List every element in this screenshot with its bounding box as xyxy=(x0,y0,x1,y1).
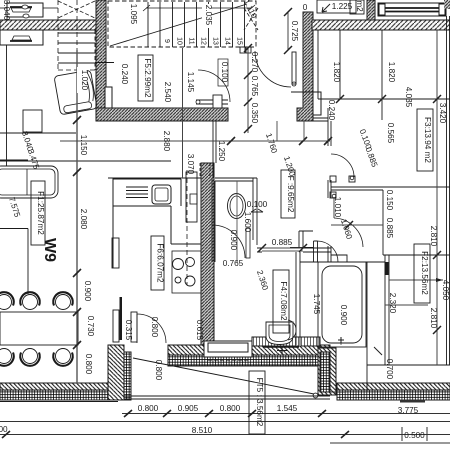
svg-text:0.900: 0.900 xyxy=(339,305,348,326)
corridor east wall with door gaps xyxy=(328,108,331,262)
wall top-right horizontal xyxy=(312,20,450,30)
corridor ne lines xyxy=(313,118,328,121)
svg-text:0.350: 0.350 xyxy=(250,103,259,124)
wall step vertical left of terrace xyxy=(108,345,124,400)
kitchen fridge column xyxy=(186,172,197,222)
svg-text:2.035: 2.035 xyxy=(204,5,213,26)
kitchen dashed appliance line xyxy=(186,170,188,285)
svg-text:1.145: 1.145 xyxy=(186,72,195,93)
staircase up arrow diagonal xyxy=(110,4,247,46)
bathtub inner xyxy=(322,266,362,343)
svg-text:0.700: 0.700 xyxy=(385,359,394,380)
F5 door arc xyxy=(198,70,230,102)
kitchen top counter xyxy=(113,179,201,268)
dining table xyxy=(0,312,78,345)
svg-text:8.510: 8.510 xyxy=(192,426,213,435)
left vertical line x7 xyxy=(6,0,8,20)
svg-text:2.080: 2.080 xyxy=(79,209,88,230)
bath west stub door leaf xyxy=(290,241,318,262)
WC 0.100 arrows xyxy=(251,209,263,212)
bath tub top line xyxy=(300,261,367,263)
right outer wall double xyxy=(447,16,450,365)
niche lintel line xyxy=(95,62,114,64)
svg-text:1.545: 1.545 xyxy=(277,404,298,413)
svg-text:11: 11 xyxy=(188,37,195,44)
corridor door arc xyxy=(255,51,291,87)
ticks chain x263 xyxy=(284,8,292,54)
F2 window black bar xyxy=(385,262,389,275)
svg-text:0.800: 0.800 xyxy=(154,360,163,381)
svg-text:0.885: 0.885 xyxy=(272,238,293,247)
svg-text:4.035: 4.035 xyxy=(404,87,413,108)
F2 niche lines xyxy=(383,190,450,255)
ticks y141 xyxy=(227,137,332,145)
svg-text:0.885: 0.885 xyxy=(385,218,394,239)
svg-text:0.730: 0.730 xyxy=(86,316,95,337)
F2 inner line y305 xyxy=(385,304,428,306)
stair dim line top xyxy=(143,5,255,11)
svg-text:3.040: 3.040 xyxy=(2,0,11,21)
top-left horizontal line y8 xyxy=(0,7,7,9)
F3 horizontal line xyxy=(318,98,450,100)
corridor stub line x277 xyxy=(276,121,278,141)
kitchen vent grill xyxy=(126,187,148,198)
kitchen door arc xyxy=(137,314,166,343)
bathtub outer xyxy=(318,262,366,347)
svg-text:1.020: 1.020 xyxy=(80,70,89,91)
stair bottom dashed cut xyxy=(58,69,95,71)
svg-text:1.600: 1.600 xyxy=(243,212,252,233)
wall joint line xyxy=(291,91,313,93)
kitchen wall stub left xyxy=(112,238,119,268)
svg-text:00: 00 xyxy=(0,425,8,434)
svg-text:0.500: 0.500 xyxy=(404,431,425,440)
WC center dim line xyxy=(236,181,238,262)
svg-text:3.420: 3.420 xyxy=(438,103,447,124)
chain x263 stairs xyxy=(287,12,289,50)
svg-text:1.820: 1.820 xyxy=(387,62,396,83)
F5 door leaf along wall xyxy=(196,100,228,104)
top arrow near 1.225 xyxy=(322,4,330,12)
bath north wall and door sill xyxy=(257,248,331,252)
svg-text:F1:25.87m2: F1:25.87m2 xyxy=(36,191,45,235)
terrace diagonal leader xyxy=(133,358,314,394)
svg-text:1.820: 1.820 xyxy=(332,62,341,83)
F3 F2 divider wall xyxy=(331,187,450,190)
F2 leader y280 xyxy=(389,279,443,281)
bath dim 0.885 line xyxy=(262,247,303,249)
svg-text:0.240: 0.240 xyxy=(120,64,129,85)
wall bottom-mid horizontal hatch xyxy=(168,345,330,356)
wall central kitchen vertical xyxy=(201,163,214,353)
corridor opening jambs xyxy=(240,47,245,53)
window in bottom wall xyxy=(204,341,252,360)
bathtub drain xyxy=(338,337,344,343)
main horizontal dim line y141 xyxy=(60,140,330,142)
chairs row2 xyxy=(0,349,73,366)
dim line y225 F2 xyxy=(331,224,383,226)
wall stairwell vertical xyxy=(96,0,106,120)
checker band bottom-left xyxy=(0,390,118,400)
svg-text:1.745: 1.745 xyxy=(312,294,321,315)
corridor door leaf vertical xyxy=(292,52,296,84)
svg-text:m2: m2 xyxy=(355,0,364,12)
washbasin left oval xyxy=(288,320,296,340)
below-wall cupboard rect xyxy=(0,30,43,45)
bottom dim line 1 xyxy=(122,413,450,415)
left boundary line xyxy=(6,45,8,166)
svg-text:FT5 : 3.56m2: FT5 : 3.56m2 xyxy=(255,378,264,427)
bath east line xyxy=(366,262,368,392)
svg-text:0.565: 0.565 xyxy=(386,123,395,144)
svg-text:0.900: 0.900 xyxy=(229,230,238,251)
left room line y160 xyxy=(0,159,28,161)
top right mini wall vertical xyxy=(367,0,375,20)
tick 0.700 leader xyxy=(374,347,382,355)
chain x437 right xyxy=(436,30,438,365)
svg-text:F2:13.56m2: F2:13.56m2 xyxy=(420,251,429,295)
staircase dashed box xyxy=(108,1,256,47)
svg-text:1.095: 1.095 xyxy=(129,4,138,25)
terrace edge double lines xyxy=(124,396,330,399)
WC room walls xyxy=(212,178,257,262)
svg-text:10: 10 xyxy=(176,37,183,45)
stove outline xyxy=(172,251,201,293)
kitchen door jambs xyxy=(113,310,137,342)
top right window band xyxy=(378,3,446,16)
wall top-left horizontal xyxy=(0,20,96,30)
svg-text:0.150: 0.150 xyxy=(385,190,394,211)
kitchen door black bar xyxy=(120,297,123,340)
wall corridor right vertical L-shape xyxy=(297,12,313,121)
white halo stair dims xyxy=(127,3,136,26)
band tab bottom right xyxy=(400,400,425,403)
checker band bottom-mid xyxy=(168,355,330,366)
terrace right step lines xyxy=(330,391,345,393)
chain x248 xyxy=(247,48,249,133)
0.500 stubs xyxy=(402,427,427,441)
svg-text:0.765: 0.765 xyxy=(223,259,244,268)
svg-text:1.225: 1.225 xyxy=(332,2,353,11)
svg-text:1.010: 1.010 xyxy=(333,197,342,218)
svg-text:12: 12 xyxy=(200,37,207,45)
toilet WC xyxy=(228,194,246,219)
sofa rounded xyxy=(0,166,58,198)
staircase cut cross right xyxy=(244,8,258,30)
svg-text:2.810: 2.810 xyxy=(429,308,438,329)
svg-text:1.250: 1.250 xyxy=(217,141,226,162)
svg-text:0.800: 0.800 xyxy=(138,404,159,413)
checker col step xyxy=(124,352,131,400)
left room line y133 xyxy=(0,132,76,134)
svg-text:0: 0 xyxy=(303,3,308,12)
svg-text:15: 15 xyxy=(236,37,243,45)
svg-text:0.765: 0.765 xyxy=(250,76,259,97)
lower stair flight left dashed cross xyxy=(58,1,95,18)
F2 west wall double xyxy=(385,255,389,365)
WC door arc xyxy=(212,225,245,258)
bath inner wall verticals xyxy=(296,252,300,345)
bottom dim line 3 xyxy=(0,434,450,436)
niche white piece right of wall xyxy=(105,87,112,108)
kitchen chain x182 xyxy=(182,48,184,178)
washbasin glyph xyxy=(11,8,31,12)
stair step numbers xyxy=(163,37,243,45)
cupboard glyph xyxy=(12,36,31,40)
checker right vertical xyxy=(320,352,330,392)
svg-text:0.800: 0.800 xyxy=(84,354,93,375)
svg-text:0.240: 0.240 xyxy=(327,100,336,121)
corridor door hinge xyxy=(292,82,296,86)
bath north wall step xyxy=(331,255,385,262)
svg-text:2.810: 2.810 xyxy=(429,226,438,247)
shower tick band bathroom xyxy=(252,337,320,346)
svg-text:0.905: 0.905 xyxy=(178,404,199,413)
svg-text:1.150: 1.150 xyxy=(79,135,88,156)
chain ticks left xyxy=(73,116,81,349)
svg-text:+: + xyxy=(338,338,343,348)
svg-text:14: 14 xyxy=(224,37,231,45)
svg-text:9: 9 xyxy=(163,39,170,43)
svg-text:0.900: 0.900 xyxy=(83,281,92,302)
F3 door jambs xyxy=(330,176,336,182)
wall bottom-left horizontal xyxy=(0,383,118,392)
armchair rotated xyxy=(54,70,97,115)
F2 door hinge xyxy=(332,194,336,198)
checker band bottom-right xyxy=(337,390,450,400)
svg-text:0.615: 0.615 xyxy=(195,320,204,341)
WC door leaf xyxy=(246,228,250,258)
lower stair dashed edges xyxy=(58,0,77,70)
svg-text:2.880: 2.880 xyxy=(162,131,171,152)
F3 door hinge xyxy=(350,176,354,180)
svg-text:F :9.65m2: F :9.65m2 xyxy=(286,176,295,213)
staircase treads xyxy=(148,2,245,47)
dining area boundary xyxy=(0,229,28,295)
F3 door arc xyxy=(331,154,354,177)
svg-text:4.050: 4.050 xyxy=(441,280,450,301)
white jamb box right of wall xyxy=(313,92,321,115)
wall right vertical terrace xyxy=(318,348,336,395)
F2 door jambs xyxy=(330,192,336,198)
svg-text:2.320: 2.320 xyxy=(388,293,397,314)
kitchen top wall line xyxy=(108,177,201,179)
F3 room divider verticals xyxy=(318,30,382,120)
wall bottom-right horizontal xyxy=(337,383,450,392)
corridor-bath wall stub xyxy=(299,231,313,248)
svg-text:2.540: 2.540 xyxy=(163,82,172,103)
svg-text:F6:6.07m2: F6:6.07m2 xyxy=(156,243,165,283)
top right corner hatch xyxy=(444,0,450,9)
hall boundary line y161 xyxy=(0,160,171,162)
F2 south wall line xyxy=(367,364,450,366)
stove burners xyxy=(173,258,196,287)
wall C foot connector xyxy=(303,121,305,141)
bottom line 2 xyxy=(0,421,450,423)
svg-text:0.315: 0.315 xyxy=(124,320,133,341)
svg-text:0.270: 0.270 xyxy=(250,52,259,73)
sideboard rect xyxy=(23,110,42,132)
svg-text:3.070: 3.070 xyxy=(186,154,195,175)
bath door arc xyxy=(317,241,338,262)
wall F5 bottom xyxy=(96,108,228,121)
svg-text:13: 13 xyxy=(212,37,219,45)
svg-text:0.800: 0.800 xyxy=(150,317,159,338)
svg-text:F5:2.99m2: F5:2.99m2 xyxy=(143,58,152,98)
lower stair right edge dashed xyxy=(94,30,96,70)
left chain line xyxy=(76,50,78,384)
bidet toilet bath xyxy=(266,322,293,345)
svg-text:W9: W9 xyxy=(41,238,58,262)
F5 door hinge xyxy=(196,100,200,104)
terrace leader circle xyxy=(313,393,318,398)
top-left washbasin rect above wall xyxy=(7,3,43,17)
kitchen wall dashes top xyxy=(200,163,210,178)
lower stair treads xyxy=(58,33,95,63)
svg-text:0.800: 0.800 xyxy=(220,404,241,413)
svg-text:F3:13.94 m2: F3:13.94 m2 xyxy=(423,117,432,163)
bottom right line xyxy=(330,442,450,444)
W7 bottom line xyxy=(0,401,118,403)
svg-text:F4:7.08m2: F4:7.08m2 xyxy=(279,281,288,321)
kitchen sink square xyxy=(152,185,171,204)
box around 1.225 xyxy=(317,0,356,13)
svg-text:0.725: 0.725 xyxy=(290,21,299,42)
svg-text:3.775: 3.775 xyxy=(398,406,419,415)
bath door sill lines xyxy=(262,248,303,251)
ticks on y99 line xyxy=(336,95,386,103)
svg-text:0.100: 0.100 xyxy=(247,200,268,209)
F5 jamb piece right xyxy=(213,95,222,108)
F2 door arc xyxy=(334,218,363,247)
svg-text:0.100: 0.100 xyxy=(220,62,229,83)
chairs row1 xyxy=(0,292,73,309)
corridor west wall double xyxy=(213,121,216,178)
